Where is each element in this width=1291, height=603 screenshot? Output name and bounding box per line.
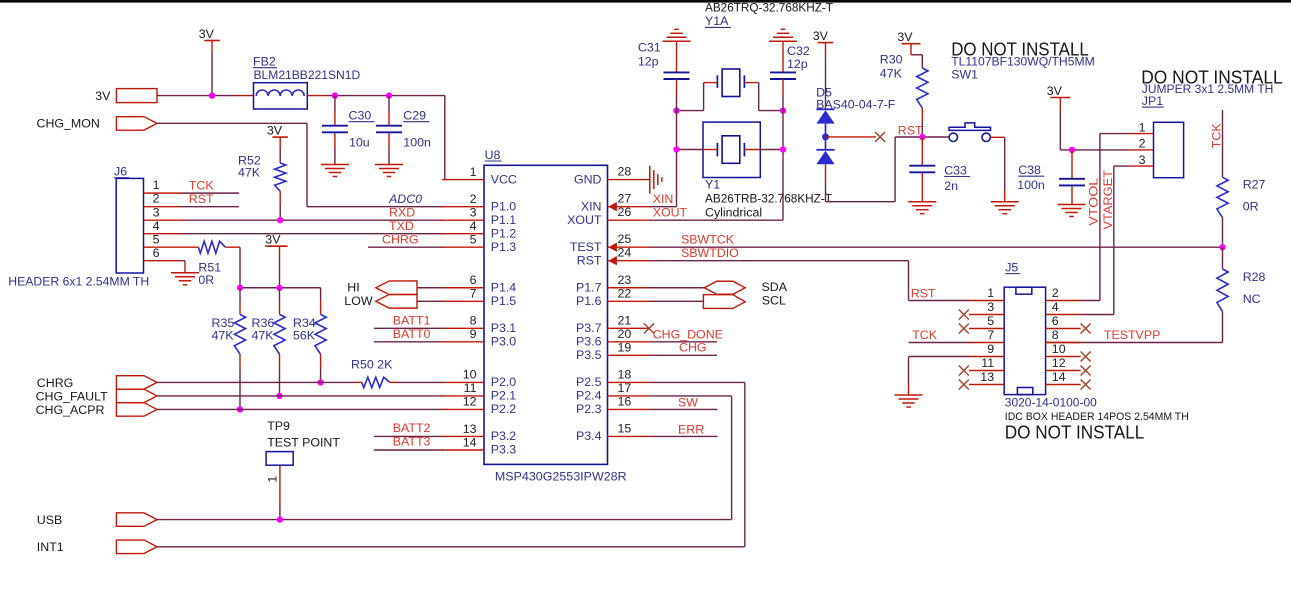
pin 8 J5 (1046, 342, 1081, 344)
svg-text:ADC0: ADC0 (388, 192, 422, 206)
svg-text:2: 2 (1139, 137, 1146, 151)
pin 19 U8 P3.5 (608, 354, 650, 356)
resistor R34 56K (320, 288, 322, 301)
svg-text:XIN: XIN (653, 192, 674, 206)
svg-text:GND: GND (574, 172, 602, 186)
ground below C38 (1058, 204, 1086, 206)
junction TP9/USB (277, 516, 283, 522)
port USB (116, 513, 157, 527)
pin 17 U8 P2.4 (608, 395, 650, 397)
svg-text:5: 5 (470, 233, 477, 247)
svg-text:12p: 12p (787, 57, 808, 71)
svg-text:47K: 47K (238, 166, 261, 180)
svg-text:1: 1 (1139, 120, 1146, 134)
svg-text:27: 27 (618, 192, 632, 206)
svg-text:7: 7 (470, 287, 477, 301)
svg-text:19: 19 (618, 340, 632, 354)
junction R34/CHRG (317, 379, 323, 385)
svg-text:15: 15 (618, 421, 632, 435)
wire CHG_DONE (650, 341, 718, 343)
wire pull rail (240, 287, 321, 289)
svg-text:6: 6 (470, 273, 477, 287)
svg-text:12: 12 (463, 395, 477, 409)
svg-text:P1.1: P1.1 (491, 213, 517, 227)
wire 3V to JP1 pin2 (1059, 98, 1061, 111)
svg-text:3V: 3V (813, 29, 829, 43)
pin 9 U8 P3.0 (442, 341, 484, 343)
svg-text:10: 10 (463, 368, 477, 382)
svg-text:6: 6 (153, 246, 160, 260)
svg-text:P2.4: P2.4 (576, 389, 602, 403)
svg-text:2n: 2n (944, 179, 958, 193)
svg-text:LOW: LOW (344, 294, 373, 308)
svg-text:RST: RST (189, 192, 214, 206)
resistor R51 0R (182, 246, 199, 248)
svg-text:J5: J5 (1005, 260, 1018, 274)
svg-text:10u: 10u (349, 135, 370, 149)
wire TP9 pin (279, 465, 281, 506)
pin 16 U8 P2.3 (608, 408, 650, 410)
svg-text:FB2: FB2 (253, 55, 276, 69)
wire JP1 pin3 VTARGET (1114, 165, 1130, 167)
pin 2 U8 P1.0 (442, 206, 484, 208)
svg-text:XIN: XIN (581, 199, 602, 213)
ground below C33 (908, 201, 936, 203)
svg-text:P1.5: P1.5 (491, 294, 517, 308)
pin 3 J6 (144, 219, 182, 221)
no-connect X pin21 (644, 323, 654, 333)
svg-text:2: 2 (153, 192, 160, 206)
no-connect X J5 pin11 (959, 366, 969, 376)
wire Y1 left leg (677, 149, 704, 151)
svg-text:TXD: TXD (389, 219, 414, 233)
svg-text:3020-14-0100-00: 3020-14-0100-00 (1005, 396, 1097, 410)
svg-text:100n: 100n (403, 135, 431, 149)
svg-text:TEST: TEST (570, 240, 602, 254)
svg-text:CHG_FAULT: CHG_FAULT (36, 390, 108, 404)
wire RST to J5 pin1 (909, 300, 970, 302)
svg-text:P1.7: P1.7 (576, 280, 602, 294)
pin 27 U8 XIN (608, 206, 650, 208)
svg-text:9: 9 (470, 327, 477, 341)
no-connect X J5 pin13 (959, 380, 969, 390)
svg-text:P1.3: P1.3 (491, 240, 517, 254)
no-connect X D5 tap (875, 132, 885, 142)
pin 11 U8 P2.1 (442, 395, 484, 397)
svg-text:P3.1: P3.1 (491, 321, 517, 335)
svg-text:56K: 56K (293, 328, 316, 342)
pin arrow U8 pin 27 (608, 202, 617, 211)
svg-text:TCK: TCK (189, 178, 215, 192)
wire BATT2 (374, 435, 444, 437)
pin 2 J5 (1046, 300, 1081, 302)
svg-text:6: 6 (1052, 314, 1059, 328)
ground J5 pin9 (895, 394, 923, 396)
svg-text:3V: 3V (1047, 84, 1063, 98)
svg-text:11: 11 (464, 381, 477, 395)
svg-text:JP1: JP1 (1142, 94, 1163, 108)
svg-text:BLM21BB221SN1D: BLM21BB221SN1D (254, 68, 361, 82)
border top bar (0, 0, 1291, 3)
svg-text:7: 7 (987, 328, 994, 342)
wire P2.4 to USB (650, 395, 732, 397)
no-connect X J5 pin5 (959, 324, 969, 334)
svg-text:14: 14 (463, 435, 477, 449)
svg-text:VTOOL: VTOOL (1087, 178, 1101, 226)
junction rail 3V (276, 285, 282, 291)
wire Y1A right leg (758, 83, 760, 111)
wire SBWTCK (650, 246, 1223, 248)
pin 14 U8 P3.3 (442, 449, 484, 451)
svg-text:XOUT: XOUT (567, 213, 602, 227)
wire FB2 to VCC (307, 95, 326, 97)
pin 3 J5 (969, 314, 1004, 316)
svg-text:INT1: INT1 (37, 540, 64, 554)
ground below C30 (321, 164, 349, 166)
svg-text:P1.2: P1.2 (491, 226, 517, 240)
svg-text:4: 4 (1052, 300, 1059, 314)
pin 18 U8 P2.5 (608, 381, 650, 383)
svg-text:IDC BOX HEADER 14POS 2.54MM TH: IDC BOX HEADER 14POS 2.54MM TH (1005, 411, 1189, 423)
svg-text:SW: SW (678, 396, 698, 410)
svg-text:0R: 0R (198, 273, 214, 287)
wire RST rail (895, 136, 949, 138)
svg-text:8: 8 (470, 314, 477, 328)
ground (flipped) above C31 (663, 40, 691, 42)
svg-text:9: 9 (987, 342, 994, 356)
pin 4 J5 (1046, 314, 1081, 316)
pin 6 J5 (1046, 328, 1081, 330)
svg-text:P2.1: P2.1 (491, 389, 517, 403)
svg-text:USB: USB (37, 513, 62, 527)
port SDA (704, 281, 745, 294)
wire J5 pin9 to ground (909, 356, 970, 358)
svg-text:100n: 100n (1017, 178, 1045, 192)
svg-text:BATT2: BATT2 (393, 421, 431, 435)
pin 26 U8 XOUT (608, 219, 650, 221)
pin 6 U8 P1.4 (442, 287, 484, 289)
node D5 center tap (822, 133, 829, 140)
pin 21 U8 P3.7 (608, 327, 650, 329)
wire 3V power stub (211, 41, 213, 54)
svg-text:RST: RST (911, 287, 936, 301)
svg-text:24: 24 (618, 246, 632, 260)
svg-text:AB26TRB-32.768KHZ-T: AB26TRB-32.768KHZ-T (705, 192, 832, 206)
svg-text:J6: J6 (114, 165, 127, 179)
svg-text:CHRG: CHRG (382, 233, 418, 247)
junction 3V/FB2 (209, 92, 215, 98)
junction C30 (332, 92, 338, 98)
junction Y1 left (673, 146, 679, 152)
pin 7 U8 P1.5 (442, 300, 484, 302)
capacitor C29 (388, 96, 390, 111)
svg-text:Cylindrical: Cylindrical (705, 205, 762, 219)
svg-text:U8: U8 (485, 148, 501, 162)
wire VTOOL to J5 pin2 (1081, 300, 1100, 302)
wire VTARGET to J5 pin4 (1081, 314, 1114, 316)
wire GND pin28 (647, 179, 649, 181)
port HI (376, 281, 417, 295)
power 3V (D5) (818, 42, 834, 44)
pin 5 J6 (144, 246, 182, 248)
wire JP1 pin1 VTOOL (1100, 133, 1130, 135)
svg-text:22: 22 (618, 286, 632, 300)
svg-text:TCK: TCK (912, 328, 938, 342)
svg-text:P2.2: P2.2 (491, 402, 517, 416)
svg-text:SBWTDIO: SBWTDIO (681, 246, 739, 260)
svg-text:3V: 3V (265, 232, 281, 246)
pin 15 U8 P3.4 (608, 435, 650, 437)
pin 1 J5 (969, 300, 1004, 302)
pin 2 J6 (144, 206, 182, 208)
svg-text:C38: C38 (1018, 163, 1041, 177)
svg-text:20: 20 (618, 327, 632, 341)
svg-text:5: 5 (153, 232, 160, 246)
svg-text:47K: 47K (212, 328, 235, 342)
wire CHRG stub P1.3 (368, 246, 444, 248)
wire 3V port to FB2 (157, 95, 236, 97)
pin 11 J5 (969, 370, 1004, 372)
svg-text:12p: 12p (638, 54, 659, 68)
pin 13 J5 (969, 384, 1004, 386)
svg-text:13: 13 (980, 370, 994, 384)
port CHRG (116, 376, 157, 390)
pin 5 U8 P1.3 (442, 246, 484, 248)
svg-text:3V: 3V (267, 124, 283, 138)
port LOW (376, 294, 417, 308)
svg-text:C33: C33 (944, 163, 967, 177)
wire TXD line J6 pin4 to U8 (182, 233, 445, 235)
svg-text:P1.4: P1.4 (491, 280, 517, 294)
pin 28 U8 GND (608, 179, 650, 181)
junction R36/CHG_FAULT (276, 393, 282, 399)
ground J6 pin6 (171, 272, 199, 274)
svg-text:P3.6: P3.6 (576, 335, 602, 349)
wire P2.5 to INT1 (650, 381, 745, 383)
no-connect X J5 pin6 (1081, 324, 1091, 334)
wire XOUT (650, 219, 784, 221)
wire D5 bottom to RST net (826, 201, 896, 203)
pin 20 U8 P3.6 (608, 341, 650, 343)
svg-text:TCK: TCK (1209, 123, 1223, 149)
pin 10 J5 (1046, 356, 1081, 358)
wire Y1A left leg (703, 83, 705, 111)
wire RST stub J6 pin2 (182, 206, 240, 208)
pin 3 U8 P1.1 (442, 219, 484, 221)
wire SW (650, 408, 718, 410)
pin 5 J5 (969, 328, 1004, 330)
junction Y1 right (780, 146, 786, 152)
svg-text:P2.3: P2.3 (576, 402, 602, 416)
svg-text:3V: 3V (897, 30, 913, 44)
junction R35/CHG_ACPR (237, 406, 243, 412)
svg-text:R27: R27 (1243, 177, 1266, 191)
ground (flipped) above C32 (769, 40, 797, 42)
junction rail R35 (237, 285, 243, 291)
svg-text:47K: 47K (252, 328, 275, 342)
svg-text:3: 3 (1139, 153, 1146, 167)
svg-text:4: 4 (153, 219, 160, 233)
wire D5 center tap (826, 136, 877, 138)
svg-text:21: 21 (618, 313, 632, 327)
svg-text:R28: R28 (1243, 270, 1266, 284)
svg-text:3V: 3V (95, 89, 111, 103)
svg-text:5: 5 (987, 314, 994, 328)
wire CHRG to R50 (157, 381, 355, 383)
svg-text:0R: 0R (1243, 199, 1259, 213)
svg-text:ERR: ERR (678, 423, 704, 437)
svg-text:P3.5: P3.5 (576, 348, 602, 362)
svg-text:AB26TRQ-32.768KHZ-T: AB26TRQ-32.768KHZ-T (705, 0, 833, 14)
pin 1 U8 VCC (442, 179, 484, 181)
wire CHG (650, 354, 718, 356)
svg-text:RST: RST (898, 124, 923, 138)
svg-text:CHG_MON: CHG_MON (37, 116, 100, 130)
wire TCK stub J6 pin1 (182, 192, 240, 194)
svg-text:HI: HI (347, 280, 359, 294)
svg-text:RST: RST (577, 253, 602, 267)
svg-text:SW1: SW1 (951, 67, 978, 81)
pin 10 U8 P2.0 (442, 381, 484, 383)
wire SDA (650, 287, 705, 289)
svg-text:28: 28 (618, 165, 632, 179)
junction XOUT/Y1A (780, 107, 786, 113)
junction RST/R30/C33 (919, 134, 925, 140)
pin 4 U8 P1.2 (442, 233, 484, 235)
no-connect X J5 pin14 (1081, 380, 1091, 390)
svg-text:NC: NC (1243, 292, 1261, 306)
svg-text:16: 16 (618, 394, 632, 408)
port CHG_ACPR (116, 403, 157, 417)
no-connect X J5 pin10 (1081, 352, 1091, 362)
svg-text:MSP430G2553IPW28R: MSP430G2553IPW28R (495, 469, 627, 483)
capacitor C30 (334, 96, 336, 111)
pin 22 U8 P1.6 (608, 300, 650, 302)
crystal Y1 (703, 122, 760, 177)
svg-text:3: 3 (153, 205, 160, 219)
wire SCL (650, 300, 704, 302)
svg-text:BATT3: BATT3 (393, 435, 431, 449)
svg-text:3V: 3V (199, 27, 215, 41)
svg-text:DO NOT INSTALL: DO NOT INSTALL (1005, 423, 1145, 443)
svg-text:C29: C29 (403, 109, 426, 123)
svg-text:Y1: Y1 (705, 177, 720, 191)
svg-text:13: 13 (463, 422, 477, 436)
junction C29 (386, 92, 392, 98)
ground pin28 (rotated) (649, 166, 651, 194)
wire LOW to P1.5 (417, 300, 444, 302)
svg-text:1: 1 (266, 476, 280, 483)
resistor R35 47K (239, 288, 241, 301)
port 3V (left) (116, 89, 157, 103)
svg-text:SCL: SCL (762, 294, 786, 308)
svg-text:R30: R30 (880, 52, 903, 66)
svg-text:VCC: VCC (491, 172, 517, 186)
junction C38 tap (1069, 147, 1075, 153)
pin 25 U8 TEST (608, 246, 650, 248)
svg-text:11: 11 (981, 356, 994, 370)
svg-text:TEST POINT: TEST POINT (267, 435, 340, 449)
svg-text:12: 12 (1052, 356, 1066, 370)
power 3V (R52) (272, 136, 288, 138)
wire XIN (650, 206, 677, 208)
pin 1 J6 (144, 192, 182, 194)
svg-text:8: 8 (1052, 328, 1059, 342)
wire J6 pin5 to 3V rail (225, 246, 240, 248)
power 3V (pull rail) (265, 245, 288, 247)
svg-text:Y1A: Y1A (705, 14, 729, 28)
svg-text:P2.5: P2.5 (576, 375, 602, 389)
wire RXD line J6 pin3 to U8 (182, 219, 445, 221)
pin arrow U8 pin 25 (608, 243, 617, 252)
wire Y1 right leg (760, 149, 783, 151)
svg-text:P3.3: P3.3 (491, 443, 517, 457)
svg-text:CHRG: CHRG (37, 376, 73, 390)
power 3V (C38) (1050, 97, 1070, 99)
svg-text:25: 25 (618, 232, 632, 246)
svg-text:HEADER 6x1 2.54MM TH: HEADER 6x1 2.54MM TH (8, 275, 149, 289)
pin 7 J5 (969, 342, 1004, 344)
svg-text:BATT1: BATT1 (393, 314, 431, 328)
wire BATT3 (374, 449, 444, 451)
resistor R36 47K (279, 288, 281, 301)
svg-text:P1.6: P1.6 (576, 294, 602, 308)
svg-text:2: 2 (470, 192, 477, 206)
svg-text:C30: C30 (349, 109, 372, 123)
ground below SW1 (991, 201, 1019, 203)
svg-text:4: 4 (470, 219, 477, 233)
svg-text:17: 17 (618, 381, 632, 395)
resistor R52 47K (279, 137, 281, 149)
svg-text:1: 1 (987, 286, 994, 300)
wire CHG_FAULT line (157, 395, 444, 397)
junction XIN/Y1A (673, 107, 679, 113)
wire BATT0 (374, 341, 444, 343)
pin 13 U8 P3.2 (442, 435, 484, 437)
no-connect X J5 pin12 (1081, 366, 1091, 376)
svg-text:RXD: RXD (389, 206, 415, 220)
svg-text:P3.7: P3.7 (576, 321, 602, 335)
pin 12 U8 P2.2 (442, 408, 484, 410)
svg-text:TESTVPP: TESTVPP (1104, 328, 1160, 342)
wire TCK to J5 pin7 (909, 342, 970, 344)
power 3V (R30) (902, 43, 921, 45)
svg-text:P3.0: P3.0 (491, 335, 517, 349)
no-connect X J5 pin3 (959, 310, 969, 320)
pin 9 J5 (969, 356, 1004, 358)
svg-text:C31: C31 (638, 40, 661, 54)
ground below C29 (375, 164, 403, 166)
svg-text:P3.4: P3.4 (576, 429, 602, 443)
pin 23 U8 P1.7 (608, 287, 650, 289)
wire BATT1 (374, 327, 444, 329)
port CHG_FAULT (116, 389, 157, 403)
svg-text:14: 14 (1052, 370, 1066, 384)
pin 8 U8 P3.1 (442, 327, 484, 329)
pin 14 J5 (1046, 384, 1081, 386)
svg-text:R50 2K: R50 2K (351, 357, 393, 371)
svg-text:P2.0: P2.0 (491, 375, 517, 389)
pin arrow U8 pin 24 (608, 256, 617, 265)
svg-text:CHG: CHG (679, 341, 707, 355)
svg-text:BATT0: BATT0 (393, 327, 431, 341)
svg-text:3: 3 (470, 205, 477, 219)
wire HI to P1.4 (417, 287, 444, 289)
svg-text:3: 3 (987, 300, 994, 314)
svg-text:XOUT: XOUT (653, 206, 688, 220)
svg-text:47K: 47K (880, 67, 903, 81)
svg-text:CHG_ACPR: CHG_ACPR (36, 403, 105, 417)
